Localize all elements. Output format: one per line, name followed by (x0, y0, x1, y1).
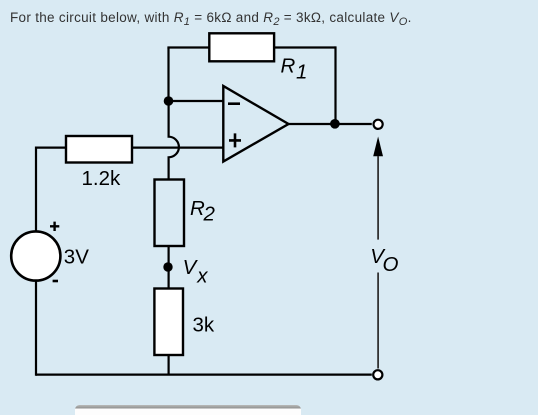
answer input box (cut off at bottom) (75, 405, 301, 415)
wire inverting input (169, 100, 224, 102)
wire op-amp output (289, 123, 372, 125)
svg-text:3V: 3V (64, 246, 89, 269)
wire source top (35, 147, 37, 232)
terminal output top (374, 120, 383, 129)
source plus sign (50, 222, 59, 231)
wire noninverting input (36, 147, 223, 149)
wire bottom rail (36, 374, 372, 376)
svg-text:3k: 3k (193, 314, 215, 337)
node Vx junction (163, 262, 172, 271)
op-amp U1 (223, 86, 288, 162)
node output junction (330, 119, 340, 129)
svg-text:O: O (383, 253, 399, 276)
svg-text:1.2k: 1.2k (82, 167, 121, 190)
svg-text:V: V (183, 256, 199, 279)
wire feedback right vertical (334, 46, 336, 124)
resistor 3k (154, 289, 183, 356)
op-amp minus sign (228, 102, 240, 105)
arrow Vo line upper (377, 156, 379, 240)
wire R2 to 3k (168, 246, 170, 289)
resistor R2 (155, 180, 185, 247)
node inverting-input junction (164, 96, 174, 106)
resistor R1 (209, 33, 274, 61)
resistor 1.2k (66, 136, 132, 163)
wire source bottom (35, 281, 37, 376)
wire 3k to ground rail (168, 355, 170, 375)
title text (10, 11, 412, 25)
voltage source V1 3V (11, 231, 60, 280)
svg-text:x: x (196, 264, 208, 287)
terminal output bottom (373, 370, 382, 379)
svg-text:2: 2 (203, 202, 216, 225)
arrow Vo head (373, 137, 383, 157)
arrow Vo line lower (377, 273, 379, 369)
svg-text:R: R (281, 55, 296, 78)
op-amp plus sign (229, 133, 241, 147)
svg-text:1: 1 (296, 61, 307, 84)
source minus sign (53, 280, 58, 283)
wire feedback top horizontal (167, 46, 335, 48)
wire feedback left vertical (167, 48, 169, 102)
wire vertical with hop over noninverting wire (169, 100, 179, 180)
